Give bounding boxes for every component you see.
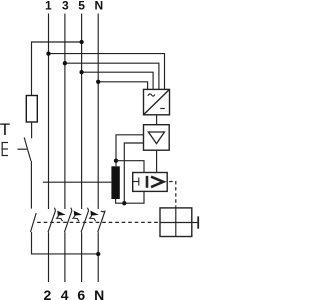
svg-text:6: 6: [77, 287, 85, 300]
test button actuator symbol: [2, 143, 27, 156]
main contact pole 3: [64, 208, 82, 233]
svg-text:N: N: [94, 287, 104, 300]
junction dot test wire on N: [96, 252, 100, 256]
amplifier triangle symbol: [148, 132, 164, 144]
wire test contact down and to N: [32, 232, 99, 254]
junction dot CT upper node: [114, 159, 118, 163]
comparator greater-than glyph: [151, 177, 163, 187]
comparator input stub tick: [138, 177, 140, 185]
CT secondary wire lower to amplifier input: [124, 143, 143, 203]
wire test button to test contact: [30, 161, 32, 209]
current transformer core W1: [111, 166, 119, 199]
amplifier U2 box: [144, 125, 170, 151]
main contact pole N: [98, 211, 106, 233]
main contact pole 5: [81, 208, 99, 233]
wire pole L1 lower: [48, 232, 50, 282]
wire test tap from L5: [32, 42, 82, 96]
wire pole L5 upper: [81, 14, 83, 210]
junction dot CT lower node: [122, 201, 126, 205]
resistor R1 test: [26, 96, 37, 123]
wire pole L1 upper: [48, 14, 50, 210]
svg-text:N: N: [94, 0, 103, 13]
converter AC tilde symbol: [148, 94, 155, 96]
svg-text:5: 5: [78, 0, 85, 13]
svg-text:4: 4: [61, 287, 69, 300]
summation transformer primary line: [43, 181, 112, 183]
svg-text:1: 1: [45, 0, 52, 13]
wire supply tap from N: [98, 82, 147, 90]
junction dot on L5: [79, 70, 83, 74]
relay manual operator bar: [197, 216, 199, 228]
dashed trip wire comparator to relay: [169, 182, 176, 208]
junction dot on N: [96, 80, 100, 84]
svg-text:T: T: [0, 120, 10, 139]
wire pole L3 upper: [64, 14, 66, 210]
comparator I glyph: [146, 176, 149, 188]
AC-DC converter U1: [144, 89, 170, 114]
wire supply tap from L3: [65, 63, 159, 89]
relay manual operator stub: [192, 222, 198, 224]
svg-text:2: 2: [44, 287, 52, 300]
comparator input stub: [133, 181, 139, 183]
wire pole L3 lower: [64, 232, 66, 282]
wire pole N upper: [97, 14, 99, 210]
comparator I> box U3: [133, 173, 168, 192]
relay cross horizontal: [160, 222, 192, 224]
wire amplifier to comparator: [156, 150, 158, 172]
test circuit switch contact blade: [31, 213, 37, 232]
wire resistor to test button: [31, 122, 33, 138]
junction dot on L3: [63, 61, 67, 65]
junction dot on L1: [46, 51, 50, 55]
junction dot on L5 test tap: [79, 40, 83, 44]
mechanical linkage dashed: [37, 221, 160, 223]
svg-text:3: 3: [62, 0, 69, 13]
wire pole N lower: [97, 232, 99, 282]
trip relay K1 box: [160, 208, 192, 237]
relay cross vertical: [175, 208, 177, 237]
wire CT upper node to comparator top: [116, 161, 144, 173]
wire supply tap from L5: [82, 72, 154, 89]
CT secondary wire upper to amplifier input: [116, 135, 144, 167]
wire pole L5 lower: [81, 232, 83, 282]
wire supply tap from L1: [49, 54, 165, 90]
converter DC minus symbol: [160, 108, 165, 110]
test button T contact blade: [24, 138, 31, 161]
main contact pole 1: [48, 208, 66, 233]
CT core bottom stub wire: [116, 191, 144, 203]
wire converter to amplifier: [156, 115, 158, 125]
